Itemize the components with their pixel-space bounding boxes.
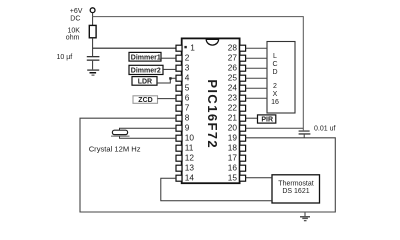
- svg-text:1: 1: [190, 43, 195, 53]
- terminal +6V: [90, 8, 95, 13]
- svg-text:Dimmer2: Dimmer2: [131, 68, 161, 75]
- label box Dimmer2: [129, 65, 163, 74]
- svg-text:24: 24: [228, 83, 238, 93]
- wire Dimmer1 to pin2: [161, 57, 176, 59]
- svg-text:7: 7: [185, 103, 190, 113]
- svg-text:19: 19: [228, 133, 238, 143]
- wire crystal pin9: [120, 128, 177, 130]
- svg-text:ohm: ohm: [66, 35, 80, 42]
- pin 1 dot: [184, 46, 186, 48]
- svg-text:LDR: LDR: [138, 78, 152, 85]
- label box ZCD: [133, 96, 158, 104]
- wire LDR to pin4: [157, 78, 176, 83]
- svg-text:10K: 10K: [68, 28, 81, 35]
- svg-text:21: 21: [228, 113, 238, 123]
- svg-text:PIC16F72: PIC16F72: [205, 79, 220, 149]
- svg-text:23: 23: [228, 93, 238, 103]
- ground bottom: [304, 212, 306, 216]
- svg-text:Crystal 12M Hz: Crystal 12M Hz: [89, 145, 141, 154]
- svg-text:ZCD: ZCD: [138, 97, 152, 104]
- svg-text:10 µf: 10 µf: [57, 54, 73, 61]
- svg-text:13: 13: [185, 163, 195, 173]
- label box PIR: [258, 115, 276, 123]
- wire ZCD to pin6: [158, 98, 177, 100]
- svg-text:3: 3: [185, 63, 190, 73]
- svg-text:25: 25: [228, 73, 238, 83]
- wire pin14 to thermostat: [161, 178, 272, 201]
- svg-text:DC: DC: [70, 15, 80, 22]
- label box LDR: [132, 77, 157, 86]
- svg-text:10: 10: [185, 133, 195, 143]
- svg-text:9: 9: [185, 123, 190, 133]
- svg-text:5: 5: [185, 83, 190, 93]
- svg-text:14: 14: [185, 173, 195, 183]
- svg-text:22: 22: [228, 103, 238, 113]
- svg-text:16: 16: [271, 99, 279, 106]
- wire terminal to resistor: [92, 13, 94, 26]
- svg-text:17: 17: [228, 153, 238, 163]
- svg-text:28: 28: [228, 43, 238, 53]
- svg-text:6: 6: [185, 93, 190, 103]
- wire pin20 to +6V node: [246, 127, 304, 129]
- wire +6V rail right and down: [93, 17, 304, 131]
- wire crystal pin10: [120, 136, 177, 138]
- svg-text:0.01 uf: 0.01 uf: [314, 125, 335, 132]
- svg-text:D: D: [272, 69, 277, 76]
- svg-text:2: 2: [185, 53, 190, 63]
- svg-text:8: 8: [185, 113, 190, 123]
- wire node to pin1: [93, 47, 176, 49]
- pin pads right 28-15: [240, 45, 246, 181]
- svg-text:11: 11: [185, 143, 194, 153]
- svg-text:20: 20: [228, 123, 238, 133]
- ground left: [87, 69, 99, 70]
- svg-text:12: 12: [185, 153, 195, 163]
- capacitor C1 10uf: [87, 56, 100, 57]
- LCD text: [271, 53, 279, 106]
- pin pads left 1-14: [176, 45, 182, 181]
- svg-text:L: L: [273, 53, 277, 60]
- svg-text:Dimmer1: Dimmer1: [131, 54, 161, 61]
- IC notch: [206, 39, 218, 45]
- svg-text:2: 2: [273, 83, 277, 90]
- svg-text:C: C: [272, 61, 277, 68]
- pin numbers right: [228, 43, 238, 183]
- svg-text:4: 4: [185, 73, 190, 83]
- resistor R1 10K: [89, 25, 96, 37]
- wire pin15 to thermostat: [246, 177, 272, 179]
- thermostat box DS1621: [272, 175, 320, 203]
- wire resistor to node: [92, 38, 94, 56]
- LCD box: [267, 42, 295, 114]
- wire pin21 to PIR: [246, 117, 258, 119]
- svg-text:DS 1621: DS 1621: [282, 188, 309, 195]
- svg-text:X: X: [273, 91, 278, 98]
- crystal plate: [111, 135, 130, 137]
- svg-text:16: 16: [228, 163, 238, 173]
- wire Dimmer2 to pin3: [163, 68, 176, 70]
- IC U1 PIC16F72 body: [182, 38, 240, 183]
- svg-text:26: 26: [228, 63, 238, 73]
- crystal X1 body: [112, 130, 127, 134]
- svg-text:Thermostat: Thermostat: [278, 180, 313, 187]
- wires pins 28-23 to LCD: [246, 48, 267, 98]
- label box Dimmer1: [129, 52, 161, 61]
- svg-text:+6V: +6V: [70, 8, 83, 15]
- pin numbers left: [185, 43, 196, 183]
- wire pin8 to ground loop: [80, 118, 335, 212]
- capacitor C2 0.01uf: [299, 130, 310, 131]
- svg-text:27: 27: [228, 53, 238, 63]
- svg-text:15: 15: [228, 173, 238, 183]
- svg-text:PIR: PIR: [261, 117, 273, 124]
- svg-text:18: 18: [228, 143, 238, 153]
